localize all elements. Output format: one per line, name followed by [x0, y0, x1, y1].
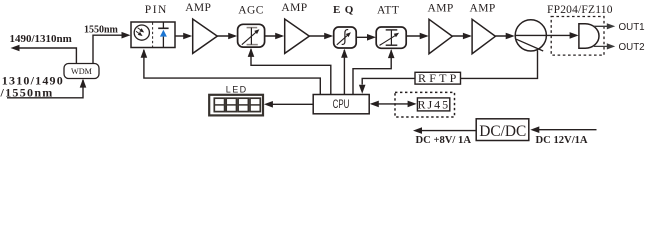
svg-text:DC +8V/ 1A: DC +8V/ 1A [416, 135, 472, 146]
arrowhead into LED [264, 101, 273, 108]
svg-text:LED: LED [226, 85, 248, 95]
svg-text:PIN: PIN [145, 4, 168, 16]
label 1490/1310nm [10, 33, 72, 45]
arrowhead into laser module [570, 32, 579, 39]
arrowhead OUT2 [607, 43, 615, 49]
arrowhead into AMP2 [275, 33, 284, 40]
arrowhead into AGC [228, 33, 237, 40]
AGC diagonal arrow [242, 29, 260, 45]
ATT element bottom bar [386, 44, 398, 46]
label PIN [145, 4, 168, 16]
svg-text:EQ: EQ [333, 4, 358, 16]
svg-text:FP204/FZ110: FP204/FZ110 [547, 4, 613, 16]
label CPU [333, 97, 350, 111]
bias diode cathode bar [158, 27, 168, 29]
CPU box [313, 95, 369, 114]
label AGC [238, 5, 263, 17]
svg-text:AMP: AMP [281, 2, 307, 14]
svg-text:OUT1: OUT1 [619, 22, 645, 33]
ATT element vertical [390, 30, 392, 45]
LED 7-segment display [209, 95, 263, 116]
label AMP3 [428, 3, 454, 15]
wire PIN to AMP1 [175, 35, 190, 37]
label 1550nm [84, 24, 119, 35]
coupler tap diagonal [516, 39, 543, 51]
EQ curve element [342, 30, 349, 45]
ATT element top bar [386, 29, 398, 31]
wire OUT1 [594, 25, 612, 27]
ATT attenuator box [376, 27, 406, 48]
photodiode light arrow 1 [138, 28, 145, 33]
wire AMP2 to EQ [309, 35, 331, 37]
wire OUT2 [594, 45, 612, 47]
label DC +8V/ 1A [416, 135, 472, 146]
wire AMP4 to coupler [495, 35, 512, 37]
svg-text:DC 12V/1A: DC 12V/1A [536, 135, 588, 146]
wire ATT control to CPU [353, 50, 391, 94]
wire through coupler to laser [515, 34, 577, 36]
arrowhead into WDM bottom [80, 79, 87, 88]
bias diode blue triangle [160, 30, 167, 37]
arrowhead DC +8V [413, 127, 422, 134]
svg-text:ATT: ATT [377, 4, 399, 16]
coupler circle [515, 20, 546, 51]
arrowhead into ATT [367, 34, 376, 41]
wire ATT to AMP3 [406, 35, 426, 37]
svg-text:AGC: AGC [238, 5, 263, 17]
RJ45 box [417, 98, 449, 111]
svg-text:OUT2: OUT2 [619, 42, 645, 53]
wire EQ to ATT [356, 36, 374, 38]
wire AMP3 to AMP4 [452, 35, 469, 37]
arrowhead 1490/1310nm left [11, 45, 20, 52]
svg-text:RJ45: RJ45 [417, 97, 450, 111]
label FP204/FZ110 [547, 4, 613, 16]
op-amp AMP4 triangle [472, 19, 495, 53]
svg-text:WDM: WDM [71, 67, 93, 76]
arrowhead into PIN [122, 32, 131, 39]
EQ diagonal arrow [337, 32, 351, 45]
svg-text:1550nm: 1550nm [84, 24, 119, 35]
label OUT2 [619, 42, 645, 53]
wire AMP1 to AGC [217, 35, 235, 37]
arrowhead into ATT bottom [388, 49, 395, 58]
label 1310/1490 [2, 73, 64, 87]
DC/DC box [476, 119, 529, 141]
arrowhead into AMP3 [420, 33, 429, 40]
arrowhead into RJ45 [408, 101, 417, 108]
label DC/DC [479, 123, 526, 140]
AGC element vertical [250, 28, 252, 45]
bias diode wire bottom [162, 37, 164, 47]
PIN module box [131, 22, 175, 48]
arrowhead into PIN bottom [141, 49, 148, 58]
label AMP2 [281, 2, 307, 14]
op-amp AMP1 triangle [193, 19, 218, 53]
bias diode wire top [162, 23, 164, 29]
svg-text:AMP: AMP [470, 3, 496, 15]
laser D-shape [579, 24, 599, 48]
AGC attenuator box [238, 24, 265, 47]
svg-text:AMP: AMP [185, 2, 211, 14]
EQ equalizer box [334, 27, 357, 48]
wire AGC control to CPU [251, 49, 331, 94]
arrowhead into EQ [324, 33, 333, 40]
label DC 12V/1A [536, 135, 588, 146]
wire RFTP to CPU [362, 78, 415, 84]
wire CPU to RJ45 [372, 103, 415, 105]
svg-text:DC/DC: DC/DC [479, 123, 526, 140]
label /1550nm [0, 85, 54, 99]
wire common fiber into WDM [7, 80, 83, 98]
WDM box [64, 64, 99, 79]
arrowhead into CPU from RJ45 [370, 101, 379, 108]
wire CPU to LED [266, 103, 313, 105]
wire 1490/1310nm output [13, 48, 76, 64]
wire 1550nm to PIN [93, 35, 128, 64]
arrowhead into EQ bottom [341, 49, 348, 58]
RJ45 dashed box [395, 92, 455, 117]
arrowhead into AMP4 [463, 33, 472, 40]
label EQ [333, 4, 358, 16]
op-amp AMP2 triangle [285, 19, 310, 53]
RFTP box [415, 72, 461, 84]
svg-text:AMP: AMP [428, 3, 454, 15]
wire PIN control to CPU [144, 50, 320, 94]
svg-text:1490/1310nm: 1490/1310nm [10, 33, 72, 45]
label AMP1 [185, 2, 211, 14]
label RFTP [418, 71, 459, 85]
wire EQ control to CPU [343, 50, 345, 94]
label ATT [377, 4, 399, 16]
wire AGC to AMP2 [265, 35, 282, 37]
photodiode circle [134, 25, 149, 40]
wire DC +8V output [416, 130, 477, 132]
op-amp AMP3 triangle [429, 19, 452, 53]
arrowhead into AGC bottom [248, 48, 255, 57]
arrowhead into coupler [506, 33, 515, 40]
label OUT1 [619, 22, 645, 33]
ATT diagonal arrow [380, 33, 400, 46]
label RJ45 [417, 97, 450, 111]
arrowhead RFTP into CPU [359, 85, 366, 94]
AGC element bottom bar [247, 44, 258, 46]
label AMP4 [470, 3, 496, 15]
svg-text:CPU: CPU [333, 97, 350, 111]
wire DC 12V input [533, 129, 597, 131]
AGC element top bar [247, 27, 258, 29]
wire coupler tap to RFTP [461, 50, 538, 78]
PIN module dashed divider [152, 23, 154, 48]
laser module dashed box [551, 17, 604, 56]
svg-text:RFTP: RFTP [418, 71, 459, 85]
arrowhead into AMP1 [183, 33, 192, 40]
label LED [226, 85, 248, 95]
arrowhead DC 12V into DC/DC [530, 126, 539, 133]
photodiode light arrow 2 [136, 31, 143, 36]
arrowhead OUT1 [607, 23, 615, 29]
